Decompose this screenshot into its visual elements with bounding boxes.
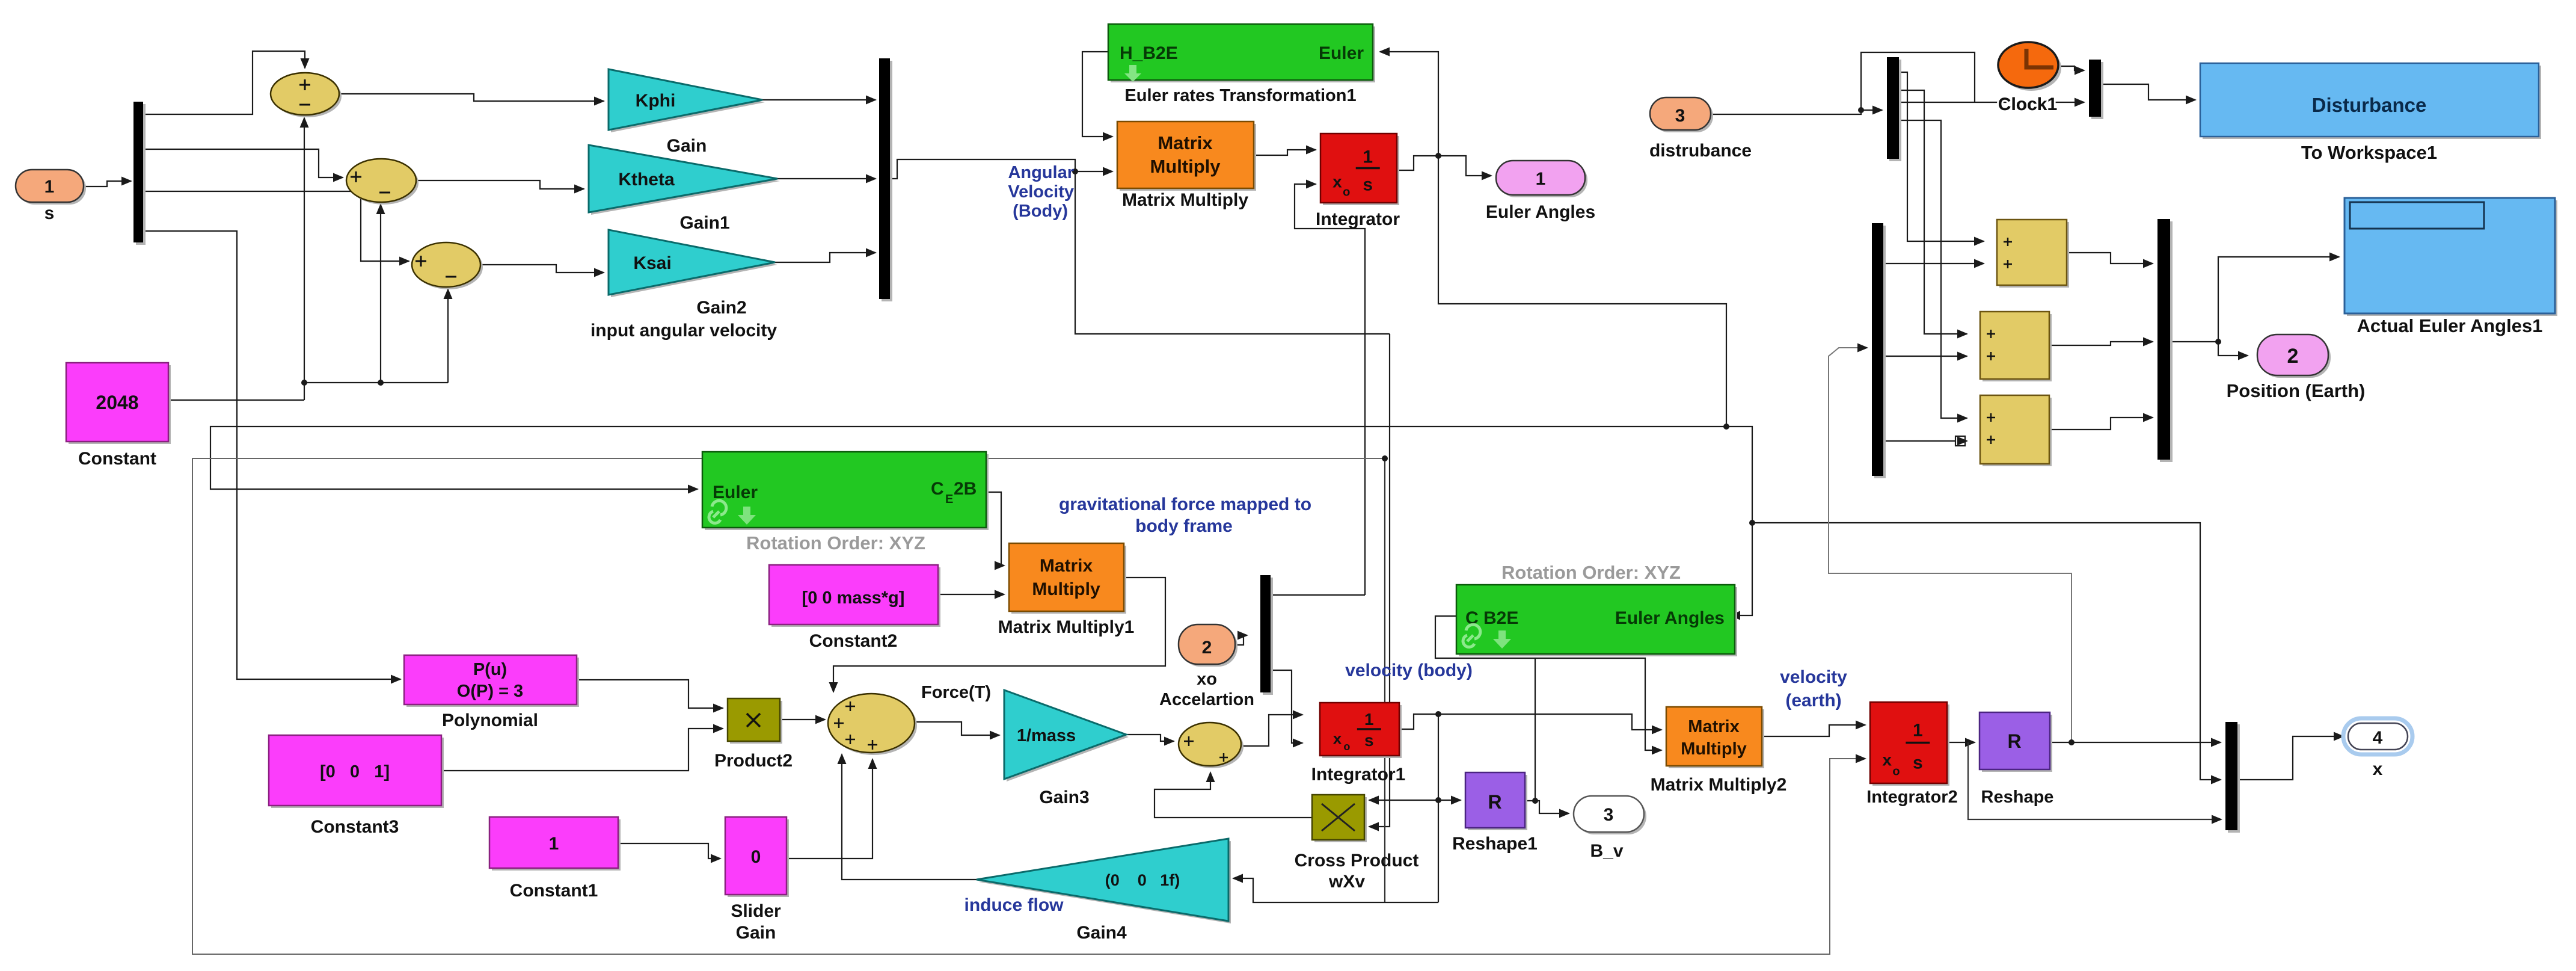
svg-text:1: 1 [1536,169,1546,189]
svg-text:Integrator2: Integrator2 [1866,788,1957,807]
svg-text:Polynomial: Polynomial [442,711,538,730]
svg-text:Velocity: Velocity [1008,182,1074,202]
svg-text:3: 3 [1604,805,1614,825]
svg-text:Matrix Multiply2: Matrix Multiply2 [1651,775,1787,795]
svg-text:Disturbance: Disturbance [2312,94,2427,116]
svg-text:Gain: Gain [736,923,776,943]
svg-text:C: C [931,479,944,499]
svg-text:0: 0 [751,847,761,867]
svg-text:Cross Product: Cross Product [1295,851,1419,871]
svg-text:o: o [1343,186,1350,199]
svg-text:Force(T): Force(T) [921,683,991,702]
svg-text:s: s [44,203,55,223]
svg-text:[0 0 1]: [0 0 1] [320,762,390,781]
svg-text:1: 1 [1364,710,1374,729]
svg-text:Matrix Multiply1: Matrix Multiply1 [998,617,1135,637]
svg-text:1: 1 [549,834,559,854]
svg-text:Gain3: Gain3 [1039,788,1089,807]
svg-text:induce flow: induce flow [964,895,1064,915]
svg-text:body frame: body frame [1135,516,1233,536]
svg-text:velocity (body): velocity (body) [1345,661,1473,680]
svg-text:R: R [1488,791,1501,813]
svg-text:R: R [2007,730,2021,752]
svg-text:Ksai: Ksai [633,253,671,273]
svg-text:Euler Angles: Euler Angles [1615,608,1725,628]
svg-text:Gain4: Gain4 [1076,923,1127,943]
svg-text:wXv: wXv [1328,872,1365,892]
svg-text:Reshape1: Reshape1 [1452,834,1538,854]
svg-text:Constant1: Constant1 [510,881,598,901]
svg-text:o: o [1892,765,1900,778]
svg-text:x: x [1332,173,1342,191]
svg-text:3: 3 [1675,106,1685,126]
svg-text:Constant2: Constant2 [809,631,898,651]
svg-text:x: x [2373,759,2383,779]
svg-text:velocity: velocity [1780,667,1847,687]
svg-text:Product2: Product2 [714,751,793,771]
svg-text:Reshape: Reshape [1981,788,2054,807]
svg-text:Multiply: Multiply [1032,579,1100,599]
svg-text:Gain2: Gain2 [696,298,746,318]
svg-text:Matrix: Matrix [1688,717,1739,736]
svg-text:x: x [1333,730,1342,748]
svg-text:Multiply: Multiply [1681,739,1747,759]
svg-text:Matrix: Matrix [1040,556,1093,576]
svg-text:To Workspace1: To Workspace1 [2301,142,2437,163]
svg-text:Gain: Gain [667,136,707,156]
svg-text:Euler Angles: Euler Angles [1486,202,1595,222]
svg-text:Angular: Angular [1008,163,1074,182]
svg-text:O(P) = 3: O(P) = 3 [457,682,523,701]
svg-text:s: s [1364,731,1374,750]
svg-text:Slider: Slider [731,901,781,921]
svg-text:Actual Euler Angles1: Actual Euler Angles1 [2357,315,2543,336]
svg-text:gravitational force mapped to: gravitational force mapped to [1059,495,1311,514]
svg-text:input angular velocity: input angular velocity [590,321,777,341]
svg-text:[0 0 mass*g]: [0 0 mass*g] [802,588,905,608]
svg-text:Constant: Constant [78,449,156,469]
svg-text:P(u): P(u) [473,660,507,679]
svg-text:xo: xo [1197,670,1217,689]
svg-text:1: 1 [1363,147,1373,167]
svg-text:distrubance: distrubance [1649,141,1752,161]
svg-text:Multiply: Multiply [1150,156,1221,177]
svg-text:Position (Earth): Position (Earth) [2227,380,2366,401]
svg-text:2: 2 [2287,345,2299,368]
svg-text:1: 1 [1913,721,1923,741]
svg-text:4: 4 [2373,728,2383,748]
svg-text:o: o [1343,741,1350,753]
svg-text:Clock1: Clock1 [1998,94,2057,114]
svg-text:Accelartion: Accelartion [1159,690,1254,709]
svg-text:Ktheta: Ktheta [618,170,675,190]
svg-text:Kphi: Kphi [636,91,676,111]
svg-text:Rotation Order: XYZ: Rotation Order: XYZ [1501,562,1681,583]
svg-text:(earth): (earth) [1785,691,1841,711]
svg-text:Integrator: Integrator [1316,209,1400,229]
svg-text:1: 1 [44,177,55,197]
svg-text:(0 0 1f): (0 0 1f) [1105,871,1180,889]
svg-text:Euler: Euler [1319,43,1364,63]
svg-text:Matrix Multiply: Matrix Multiply [1122,190,1248,210]
svg-text:Rotation Order: XYZ: Rotation Order: XYZ [746,532,925,553]
svg-text:s: s [1913,753,1923,773]
svg-text:Euler rates Transformation1: Euler rates Transformation1 [1124,86,1356,105]
svg-text:2B: 2B [954,479,977,499]
svg-text:B_v: B_v [1590,841,1623,861]
svg-text:1/mass: 1/mass [1017,726,1076,745]
svg-text:E: E [945,493,953,506]
svg-text:x: x [1882,750,1892,769]
svg-text:Gain1: Gain1 [679,213,729,233]
svg-text:Constant3: Constant3 [311,817,399,837]
svg-text:2048: 2048 [96,392,138,413]
svg-text:(Body): (Body) [1013,202,1068,221]
svg-text:H_B2E: H_B2E [1120,43,1178,63]
svg-text:s: s [1363,174,1373,194]
svg-text:2: 2 [1202,638,1212,658]
svg-text:Matrix: Matrix [1158,132,1213,153]
svg-text:Integrator1: Integrator1 [1311,765,1406,785]
